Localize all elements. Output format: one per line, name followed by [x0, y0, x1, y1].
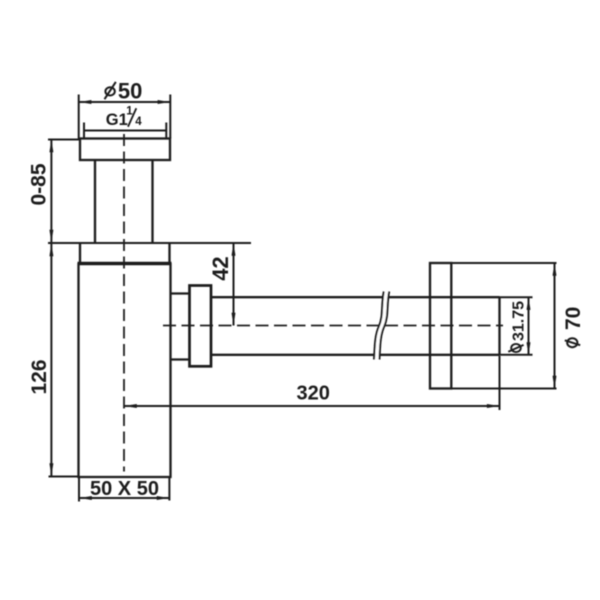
- svg-text:320: 320: [297, 382, 330, 404]
- svg-text:50 X 50: 50 X 50: [90, 478, 159, 500]
- svg-text:70: 70: [562, 307, 585, 330]
- svg-text:4: 4: [135, 116, 142, 128]
- svg-text:126: 126: [28, 359, 51, 394]
- svg-text:0-85: 0-85: [28, 163, 51, 205]
- svg-text:42: 42: [208, 256, 233, 280]
- svg-text:G1: G1: [106, 111, 128, 129]
- svg-text:31.75: 31.75: [511, 301, 528, 341]
- svg-text:50: 50: [118, 79, 142, 104]
